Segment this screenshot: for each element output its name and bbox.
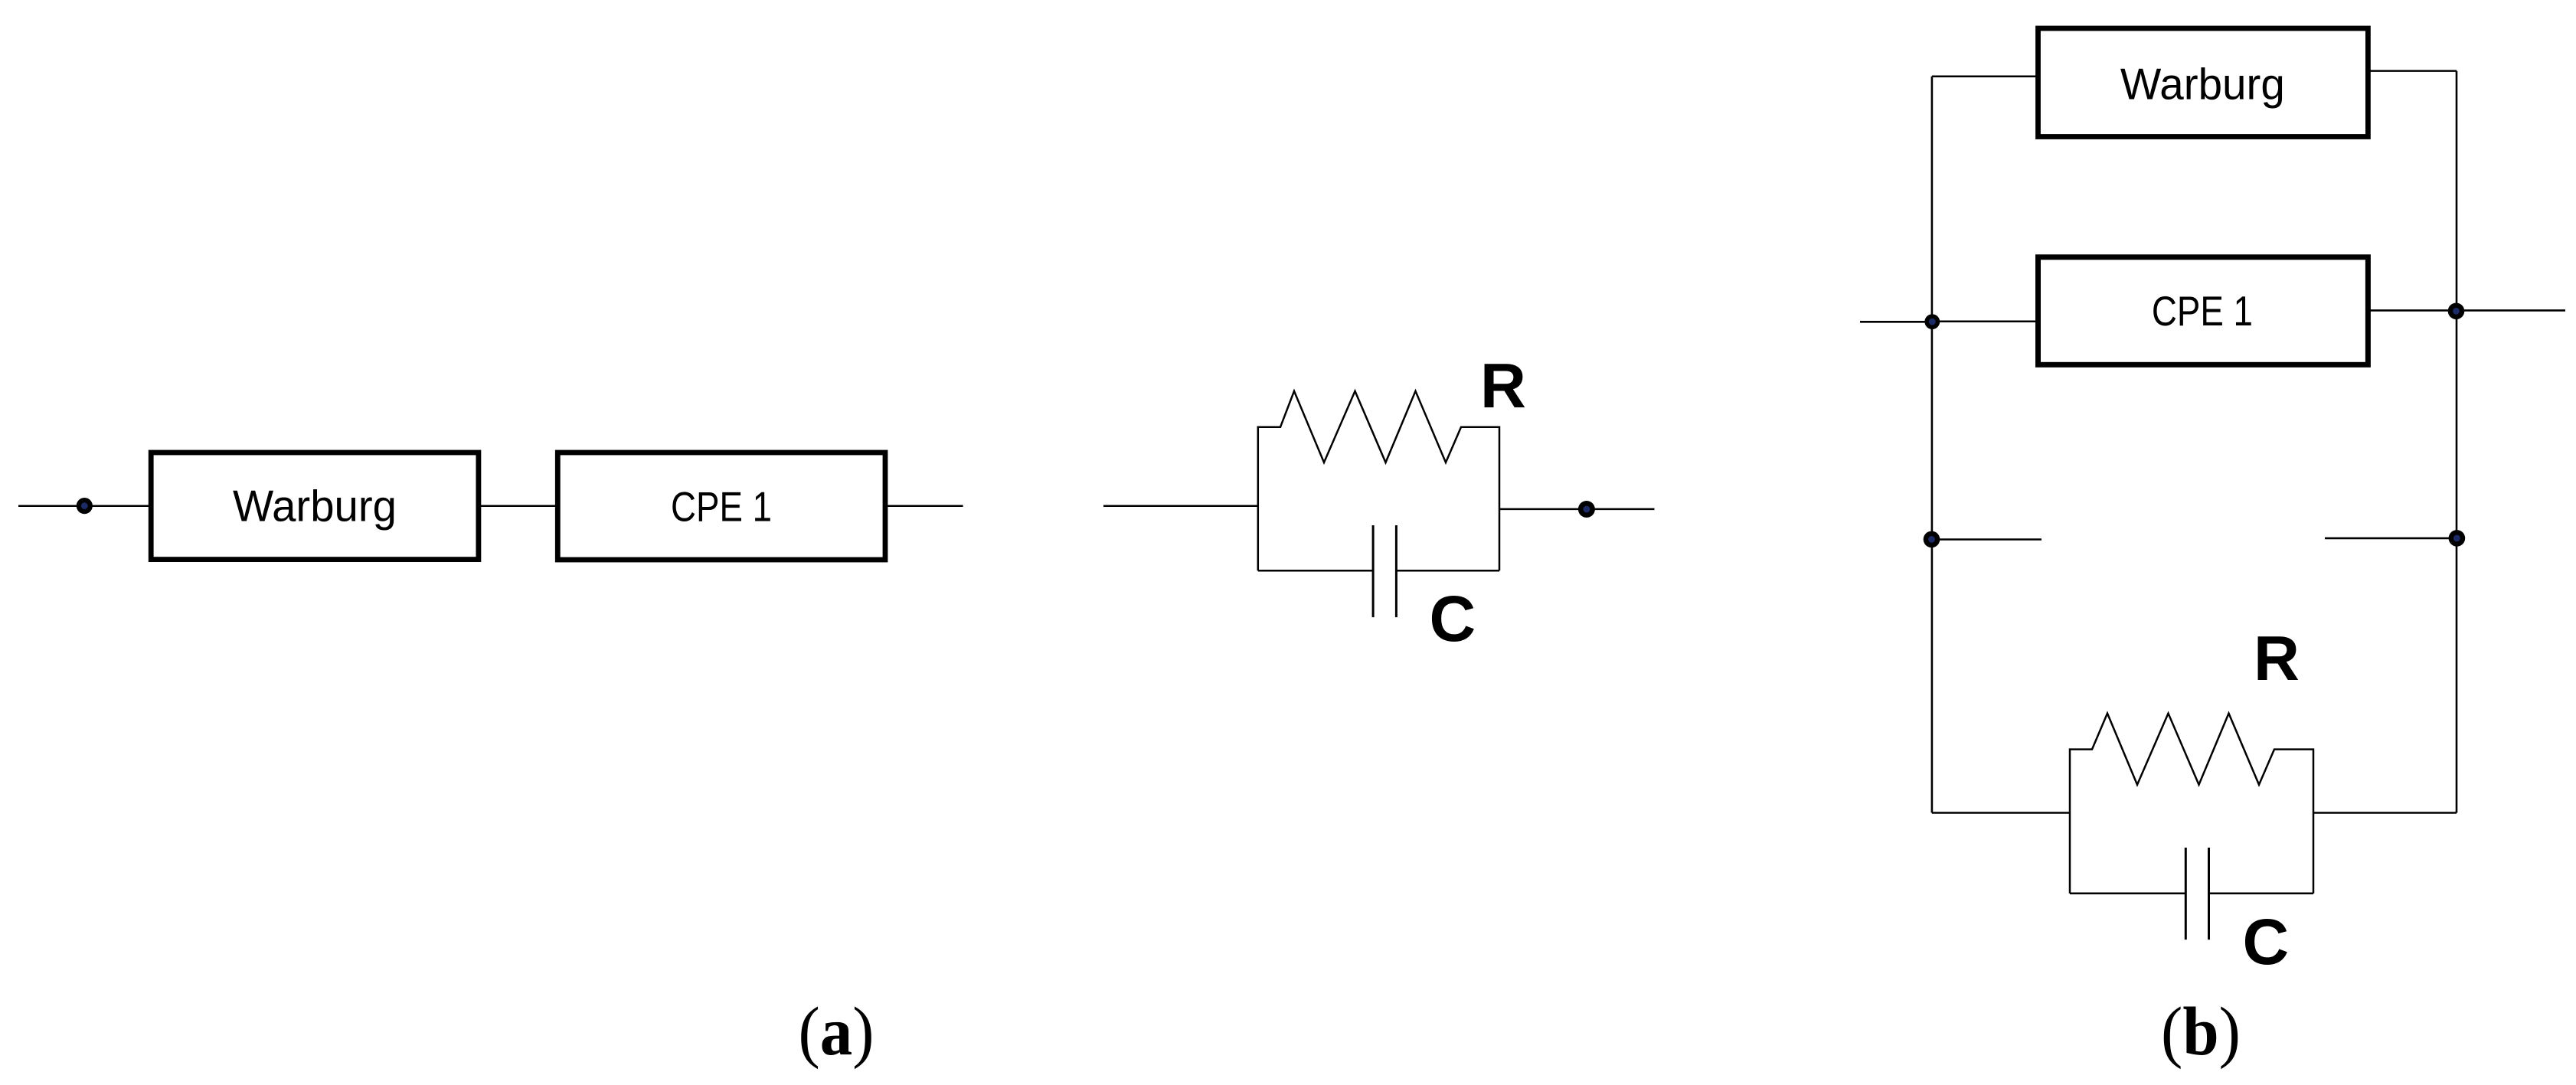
svg-text:C: C <box>1430 583 1476 655</box>
wire b bottom-left <box>1932 812 2070 814</box>
wire RC left lead (a) <box>1103 505 1259 507</box>
wire b loop bottom left segment <box>2070 892 2185 894</box>
wire a input <box>18 505 151 507</box>
wire a output <box>885 505 963 507</box>
wire loop bottom left segment (a) <box>1258 570 1373 572</box>
wire b CPE 1 output <box>2368 309 2565 312</box>
wire b bottom-right <box>2313 812 2457 814</box>
node a input terminal <box>77 498 93 514</box>
capacitor C (a) plates <box>1373 525 1396 617</box>
node b output junction <box>2448 303 2465 320</box>
wire b left vertical <box>1931 77 1934 813</box>
wire b junction to CPE 1 <box>1932 321 2038 323</box>
node b middle-right junction <box>2449 530 2466 547</box>
svg-text:(a): (a) <box>799 994 874 1070</box>
Warburg box (a) <box>151 453 479 560</box>
wire b middle-left stub <box>1932 538 2042 541</box>
svg-text:Warburg: Warburg <box>2120 60 2285 109</box>
svg-text:CPE 1: CPE 1 <box>2152 287 2253 335</box>
node RC output terminal (a) <box>1578 501 1595 518</box>
svg-text:R: R <box>2254 623 2300 694</box>
wire b input <box>1860 321 1932 323</box>
wire RC right lead (a) <box>1499 508 1655 511</box>
svg-text:C: C <box>2243 906 2290 978</box>
resistor R (a), parallel loop with zigzag top <box>1258 391 1499 571</box>
wire between Warburg and CPE 1 (a) <box>479 505 557 507</box>
wire b top-left <box>1932 76 2038 78</box>
wire loop bottom right segment (a) <box>1396 570 1499 572</box>
svg-text:(b): (b) <box>2161 994 2241 1070</box>
wire b top-right <box>2368 70 2457 72</box>
CPE 1 box (b) <box>2038 257 2368 365</box>
wire b loop bottom right segment <box>2209 892 2314 894</box>
svg-text:Warburg: Warburg <box>233 482 397 531</box>
svg-text:R: R <box>1480 350 1526 421</box>
Warburg box (b) <box>2038 28 2368 137</box>
wire b middle-right stub <box>2325 538 2457 540</box>
capacitor C (b) plates <box>2185 848 2208 940</box>
node b input junction <box>1924 314 1940 329</box>
CPE 1 box (a) <box>557 453 885 560</box>
svg-text:CPE 1: CPE 1 <box>671 483 772 531</box>
wire b right vertical <box>2456 71 2458 813</box>
resistor R (b), parallel loop with zigzag top <box>2070 714 2313 894</box>
node b middle-left junction <box>1924 531 1940 548</box>
